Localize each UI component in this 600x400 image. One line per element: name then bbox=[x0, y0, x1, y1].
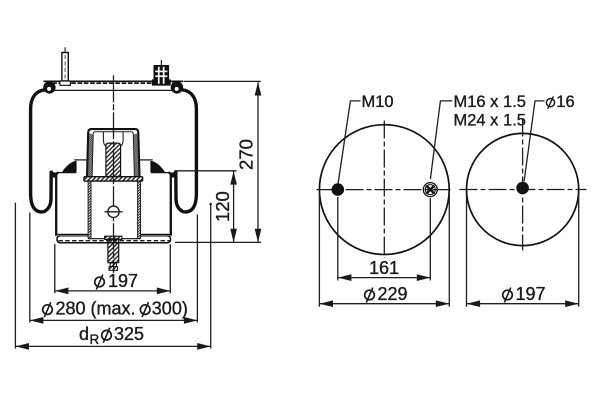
circle B vertical center line bbox=[522, 119, 524, 251]
svg-text:197: 197 bbox=[108, 271, 138, 291]
dim dR325 line bbox=[16, 324, 211, 350]
leader d16 bbox=[524, 101, 544, 181]
svg-text:M16 x 1.5: M16 x 1.5 bbox=[454, 93, 526, 111]
svg-text:280 (max.: 280 (max. bbox=[56, 299, 136, 319]
lower stud shank (hatched) bbox=[108, 239, 119, 271]
leader M10 bbox=[338, 101, 360, 183]
cone cavity left wall bbox=[103, 132, 106, 147]
svg-text:120: 120 bbox=[212, 191, 233, 222]
svg-text:161: 161 bbox=[369, 258, 399, 278]
bowl floor lines bbox=[58, 233, 170, 235]
svg-text:d: d bbox=[79, 324, 89, 344]
svg-text:R: R bbox=[90, 332, 100, 347]
right rubber wedge bbox=[151, 161, 165, 172]
cone cavity right wall bbox=[120, 132, 123, 147]
piston cone inner line bbox=[92, 132, 134, 177]
svg-text:270: 270 bbox=[235, 139, 256, 170]
stud head at plate bbox=[105, 236, 122, 239]
left rubber wedge bbox=[63, 161, 77, 172]
dim 161 line bbox=[338, 258, 430, 281]
lobe-wall junction right bbox=[171, 172, 178, 178]
piston bowl wall left bbox=[56, 173, 58, 236]
stud M10 (top left) center line bbox=[64, 47, 66, 52]
left ledge line bbox=[74, 159, 89, 161]
right ledge line bbox=[138, 159, 153, 161]
svg-text:197: 197 bbox=[516, 284, 546, 304]
circle A vertical center line bbox=[383, 121, 385, 259]
svg-text:M10: M10 bbox=[362, 93, 394, 111]
bellows outline right bbox=[176, 90, 197, 212]
circle A (d229 flange) bbox=[319, 125, 449, 255]
dim 197 (right view) line bbox=[467, 284, 579, 307]
svg-text:300): 300) bbox=[152, 299, 188, 319]
stud M10 (top left) bbox=[60, 53, 71, 86]
piston bowl wall right bbox=[169, 173, 171, 236]
sight hole bbox=[105, 206, 123, 217]
dim 270 ref line top bbox=[184, 80, 261, 82]
piston column box right side bbox=[138, 181, 141, 239]
dim 280 line bbox=[30, 299, 198, 324]
svg-text:M24 x 1.5: M24 x 1.5 bbox=[454, 111, 526, 129]
dim 120 line bbox=[212, 171, 237, 242]
dim 229 line bbox=[320, 284, 450, 307]
dim 229 extension lines bbox=[319, 194, 449, 307]
air fitting (top right) bbox=[152, 66, 170, 86]
dim 270 / 120 ref line bottom bbox=[175, 241, 261, 243]
circle B horizontal center line bbox=[460, 189, 587, 191]
hole center (filled) bbox=[516, 182, 529, 195]
hole M16/M24 crossed circle bbox=[423, 183, 437, 197]
circle B (d197 piston top view) bbox=[466, 133, 578, 245]
top plate bbox=[44, 80, 184, 82]
piston cone outer bbox=[87, 129, 140, 176]
piston flange bbox=[84, 177, 143, 181]
label d16 bbox=[546, 96, 554, 109]
bottom plate bbox=[57, 236, 171, 243]
svg-text:16: 16 bbox=[556, 93, 574, 111]
piston cone wall band (hatched) bbox=[87, 133, 93, 177]
air fitting (top right) center line bbox=[160, 60, 162, 66]
dim 197 (right view) extension lines bbox=[467, 193, 579, 307]
dim 120 ref line top bbox=[175, 170, 237, 172]
left bead bbox=[43, 81, 55, 93]
right bead bbox=[171, 81, 183, 93]
hole M10 (filled) bbox=[332, 183, 345, 196]
dim 197 extension lines bbox=[55, 244, 171, 293]
lobe-wall junction left bbox=[50, 172, 57, 178]
central pillar (hatched) bbox=[106, 143, 121, 176]
circle A horizontal center line bbox=[317, 189, 453, 191]
bellows outline left bbox=[31, 90, 52, 212]
svg-text:325: 325 bbox=[114, 324, 144, 344]
dim dR325 extension lines bbox=[15, 203, 210, 349]
dim 161 extension lines bbox=[338, 197, 431, 281]
dim 270 line bbox=[235, 82, 261, 242]
svg-text:229: 229 bbox=[378, 284, 408, 304]
dim 280 extension lines bbox=[30, 213, 198, 323]
piston column box left side bbox=[88, 181, 91, 239]
center line (vertical axis of left view) bbox=[113, 75, 115, 273]
dim 197 line bbox=[55, 271, 170, 294]
leader M16/M24 bbox=[430, 101, 452, 179]
